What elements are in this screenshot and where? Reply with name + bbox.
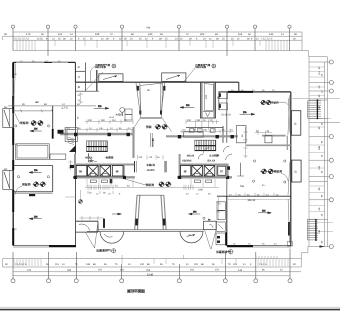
left stair direction triangle bbox=[69, 145, 76, 152]
right shaft box gray ring bbox=[217, 166, 227, 177]
node bubble B5 bbox=[177, 279, 181, 283]
node bubble 7 bbox=[253, 25, 256, 28]
small drain circles left wing bbox=[15, 125, 50, 178]
extra top band C-D ticks bbox=[55, 40, 260, 46]
svg-text:台: 台 bbox=[294, 170, 297, 174]
dark column blocks bbox=[70, 165, 74, 168]
small circle near corner box bbox=[203, 217, 205, 219]
core below-wall extension ticks bbox=[87, 179, 227, 187]
grid bubbles bottom bbox=[11, 249, 292, 283]
wall x85.4 bbox=[84, 62, 86, 91]
svg-text:预留洞: 预留洞 bbox=[22, 183, 31, 187]
top band dim text row1 bbox=[4, 27, 297, 36]
svg-text:BX.XX: BX.XX bbox=[208, 160, 216, 163]
wall x240.5 bbox=[240, 163, 242, 176]
right core machine room box bbox=[184, 132, 203, 137]
node bubble B1 bbox=[11, 279, 15, 283]
left core upper area small dims bbox=[68, 160, 72, 170]
svg-text:井: 井 bbox=[220, 170, 223, 174]
svg-text:标高规: 标高规 bbox=[105, 155, 114, 159]
svg-text:794: 794 bbox=[146, 27, 151, 30]
funnel left leg bbox=[136, 82, 140, 112]
extra dim text top band row1 bbox=[41, 33, 284, 36]
arrow left wing 2 bbox=[29, 169, 42, 173]
gray verticals cores bbox=[74, 154, 76, 178]
axis target pair F (right wing top) bbox=[261, 98, 340, 105]
gray wall right core above elevators bbox=[179, 164, 229, 166]
semicircle right bbox=[180, 231, 203, 243]
gray wall left core above elevators bbox=[74, 164, 134, 166]
node bubble 1 bbox=[11, 25, 14, 28]
node bubble R2 bbox=[329, 81, 333, 85]
right wing dim text above y196 bbox=[229, 193, 279, 196]
wire band vert 1 bbox=[308, 57, 310, 247]
door dark mark left wing bbox=[29, 194, 35, 196]
node bubble R4 bbox=[329, 135, 333, 139]
svg-text:386 38: 386 38 bbox=[248, 199, 256, 202]
axis target pair B (left wing lower) bbox=[15, 182, 45, 194]
wall bottom left bbox=[13, 244, 76, 246]
svg-text:118: 118 bbox=[238, 33, 243, 36]
tank spread diagonals bbox=[132, 118, 141, 132]
dim row y121 right bbox=[186, 120, 219, 131]
diagonal vent leader bbox=[85, 72, 103, 91]
node bubble B4 bbox=[120, 279, 124, 283]
wall top right y92 bbox=[227, 91, 291, 93]
wall y221 bbox=[76, 220, 98, 222]
arrow left wing 1 bbox=[30, 128, 42, 132]
wall left outer bbox=[12, 62, 14, 246]
wall y196 right section bbox=[217, 195, 291, 197]
right wing small box bbox=[265, 136, 272, 143]
extra dim text density top band row2 bbox=[37, 38, 259, 41]
wire right step bbox=[302, 32, 309, 57]
svg-text:预留洞: 预留洞 bbox=[271, 100, 279, 104]
extra dim text bottom band bbox=[46, 263, 283, 272]
wall x76 middle bbox=[75, 82, 77, 246]
svg-text:水箱 间: 水箱 间 bbox=[146, 163, 156, 167]
right wing tick text above wall y92 bbox=[231, 89, 275, 92]
node bubble R5 bbox=[329, 158, 333, 162]
right wall glazing diagonals bbox=[288, 95, 290, 243]
svg-text:梯: 梯 bbox=[79, 170, 82, 174]
right band extra ticks bbox=[309, 67, 325, 212]
gray wall right core top band bbox=[166, 135, 238, 137]
semicircle left bbox=[100, 231, 124, 243]
svg-text:536: 536 bbox=[240, 185, 245, 188]
right wing dim ticks above bottom wall bbox=[233, 243, 277, 246]
wall top-left bbox=[13, 61, 75, 63]
node bubble B8 bbox=[288, 279, 292, 283]
dim text above y105.9 bbox=[22, 101, 80, 106]
trapezoid top bbox=[137, 194, 164, 196]
label 屋面排水沟 left bbox=[96, 249, 115, 253]
svg-text:146: 146 bbox=[269, 33, 274, 36]
core dim texts above tick rows bbox=[67, 127, 233, 132]
svg-text:240: 240 bbox=[148, 33, 153, 36]
svg-text:132: 132 bbox=[318, 105, 321, 110]
top band dim text row2 bbox=[14, 38, 297, 41]
svg-text:170: 170 bbox=[27, 269, 32, 272]
bottom band dim text row1 bbox=[5, 263, 296, 266]
wire dim line L1 bbox=[3, 258, 302, 260]
svg-text:7.5,7.5: 7.5,7.5 bbox=[259, 263, 267, 266]
svg-text:屋顶平面图: 屋顶平面图 bbox=[127, 288, 145, 293]
extra dim texts below cores bbox=[96, 193, 211, 196]
right wall dark segment bbox=[288, 222, 290, 236]
funnel upper dark knots bbox=[137, 86, 139, 91]
elevator right shaft box R bbox=[217, 166, 227, 177]
elevator shaft L1 with X bbox=[88, 166, 99, 177]
svg-text:7.5,7.5,7.5: 7.5,7.5,7.5 bbox=[15, 263, 27, 266]
wall y91.2 bbox=[75, 90, 98, 92]
right band vertical dim texts bbox=[318, 66, 321, 234]
node bubble B3 bbox=[74, 279, 78, 283]
elevator machine room L bbox=[76, 166, 87, 177]
arrow left wing 3 bbox=[29, 215, 42, 219]
bay window upper bbox=[292, 111, 301, 136]
bay window lower bbox=[292, 160, 301, 182]
node bubble B2 bbox=[47, 279, 51, 283]
funnel right leg bbox=[161, 82, 165, 112]
arrow bottom middle left-pointing bbox=[189, 211, 201, 215]
bottom band extension ticks bbox=[14, 259, 288, 266]
room lower-left rect bbox=[13, 166, 53, 194]
shaft gray side walls bbox=[201, 83, 203, 118]
corridor top dim texts bbox=[139, 156, 161, 159]
wire band vert 2 bbox=[324, 62, 326, 247]
svg-text:加防水套管: 加防水套管 bbox=[94, 66, 107, 69]
dim ticks y218 bbox=[79, 216, 103, 221]
arrow bottom right right-pointing bbox=[258, 209, 271, 213]
corner box bbox=[204, 221, 217, 229]
axis target pair D (core middle lower) bbox=[123, 179, 170, 187]
wall step x238.8 bbox=[238, 82, 240, 92]
corner footing bottom right bbox=[287, 242, 292, 247]
wire dim line L2 bbox=[3, 266, 302, 268]
wall right outer bbox=[290, 92, 292, 246]
node bubble R6 bbox=[329, 175, 333, 179]
svg-text:198: 198 bbox=[95, 33, 100, 36]
wire left edge bbox=[2, 259, 4, 267]
wall corridor y127.6 bbox=[186, 127, 223, 129]
core label texts bbox=[85, 154, 220, 173]
right wing thin line below y196 wall bbox=[228, 199, 291, 201]
svg-text:(梯): (梯) bbox=[89, 159, 93, 163]
elevator shaft L2 with X bbox=[100, 166, 111, 177]
planter double rect bbox=[16, 144, 50, 160]
label 屋面排水沟 right bbox=[216, 250, 233, 254]
dim row y121 left bbox=[85, 120, 133, 125]
svg-text:B.B间距: B.B间距 bbox=[210, 154, 220, 158]
vertical dim x218 bottom bbox=[216, 197, 220, 220]
svg-text:258: 258 bbox=[318, 145, 321, 150]
svg-text:15.00: 15.00 bbox=[109, 116, 115, 119]
svg-text:165: 165 bbox=[318, 165, 321, 170]
svg-text:146: 146 bbox=[238, 269, 243, 272]
node bubble B6 bbox=[223, 279, 227, 283]
gray wall right core below elevators bbox=[177, 176, 232, 178]
wire border dark bbox=[0, 309, 340, 311]
wall bottom left dark segment bbox=[49, 245, 76, 247]
wire dim line y110.9 bbox=[13, 110, 53, 112]
node bubble R7 bbox=[329, 198, 333, 202]
vent circle top core bbox=[120, 108, 125, 113]
right core tick row above bbox=[180, 129, 234, 133]
wire left edge bbox=[2, 36, 4, 40]
node bubble R8 bbox=[329, 245, 333, 249]
wire band vert 3 bbox=[327, 57, 329, 247]
right wing dim row y132 bbox=[255, 130, 272, 135]
svg-text:24 36 18: 24 36 18 bbox=[221, 114, 231, 117]
svg-text:115: 115 bbox=[55, 263, 59, 266]
svg-text:预留洞: 预留洞 bbox=[20, 121, 29, 125]
node bubble 4 bbox=[120, 25, 123, 28]
svg-text:170: 170 bbox=[26, 33, 31, 36]
grid bubbles top bbox=[11, 25, 291, 56]
right band ladder hatch upper bbox=[308, 99, 332, 119]
elevator machine room R bbox=[181, 166, 191, 177]
label 排气道 left bbox=[91, 63, 116, 82]
wall y71.3 bbox=[75, 70, 85, 72]
vertical dim x245.5 bbox=[243, 127, 248, 158]
wall x227 upper bbox=[226, 92, 228, 143]
bottom band dim text row2 bbox=[27, 269, 243, 272]
svg-text:台: 台 bbox=[294, 122, 297, 126]
right band arrowhead at bottom bubble bbox=[320, 245, 325, 247]
node bubble B7 bbox=[254, 279, 258, 283]
svg-text:预留洞: 预留洞 bbox=[146, 183, 155, 187]
right core door jambs below bbox=[195, 180, 201, 183]
node bubble 3 bbox=[74, 25, 77, 28]
wall x227 bbox=[226, 196, 228, 246]
top band small extension ticks left cluster bbox=[17, 40, 287, 50]
svg-text:202: 202 bbox=[194, 263, 199, 266]
trapezoid leg dark tips bbox=[135, 219, 138, 226]
svg-text:预留洞: 预留洞 bbox=[274, 170, 283, 174]
left core tick row above bbox=[64, 128, 133, 132]
wall box x98 bbox=[97, 221, 99, 232]
left wing vertical dim marks x76 region bbox=[77, 94, 81, 119]
funnel dark tips bbox=[139, 111, 141, 115]
svg-text:7.5,7.5,7.5,7.5: 7.5,7.5,7.5,7.5 bbox=[14, 38, 30, 41]
corridor small arrow vertical bbox=[152, 138, 154, 147]
corridor vertical pipe pair bbox=[151, 133, 153, 147]
wall x227 mid segment bbox=[226, 179, 228, 197]
wire dim line y105.9 bbox=[8, 105, 96, 107]
left main stair hatch bbox=[87, 141, 108, 152]
trapezoid left leg bbox=[135, 195, 137, 229]
node bubble 6 bbox=[225, 25, 228, 28]
small circles on right wall bbox=[284, 160, 286, 162]
svg-text:水箱间: 水箱间 bbox=[116, 113, 124, 117]
wall y232 bbox=[76, 231, 98, 233]
canopy box 2 bbox=[162, 73, 186, 82]
wall bottom right dark segment bbox=[227, 245, 253, 247]
axis target pair C (core middle upper) bbox=[146, 125, 167, 130]
corridor walls between cores bbox=[135, 161, 167, 172]
svg-text:XB/XBX: XB/XBX bbox=[182, 160, 192, 163]
right wing room box x237 bbox=[237, 126, 247, 143]
svg-text:加防水套管: 加防水套管 bbox=[194, 66, 207, 69]
left core dark column blocks bbox=[58, 130, 64, 134]
svg-text:202: 202 bbox=[200, 33, 205, 36]
svg-text:1540: 1540 bbox=[147, 272, 154, 276]
svg-text:梯: 梯 bbox=[184, 170, 187, 174]
arrow bottom middle right-pointing bbox=[112, 213, 121, 215]
wire dim line D bbox=[13, 50, 302, 52]
box right of planter bbox=[50, 154, 66, 159]
V leader bottom left bbox=[85, 221, 98, 248]
dark wall seg bbox=[103, 219, 105, 228]
wire dim line C bbox=[13, 39, 302, 41]
tank panel bbox=[140, 83, 163, 117]
door arc in box bbox=[79, 224, 90, 230]
elevator right box L bbox=[112, 166, 123, 177]
svg-text:出屋面排气: 出屋面排气 bbox=[96, 249, 111, 253]
node bubble R1 bbox=[329, 60, 333, 64]
svg-text:115: 115 bbox=[58, 33, 63, 36]
node bubble R3 bbox=[329, 89, 333, 93]
wire band top bbox=[309, 56, 328, 58]
node bubble 5 bbox=[177, 25, 180, 28]
arrow mid top left-pointing bbox=[180, 104, 194, 108]
axis target pair E (right wing mid) bbox=[262, 169, 289, 181]
wire dim line A bbox=[13, 31, 302, 33]
svg-text:7.5,7.5,7.5: 7.5,7.5,7.5 bbox=[261, 38, 273, 41]
trapezoid right leg bbox=[161, 195, 163, 229]
svg-text:4B2.B: 4B2.B bbox=[187, 155, 194, 158]
wall x96.8 bbox=[96, 70, 98, 91]
right core dark column blocks bbox=[178, 135, 181, 138]
svg-text:240: 240 bbox=[140, 263, 145, 266]
wall middle bottom double line bbox=[98, 229, 204, 231]
box left M2 bbox=[3, 168, 13, 190]
wall top middle y82 bbox=[75, 81, 238, 83]
gray wall left core below elevators bbox=[73, 176, 135, 178]
left small stair hatch bbox=[68, 137, 74, 144]
svg-text:132: 132 bbox=[318, 229, 321, 234]
dark marks in boxes bbox=[217, 236, 220, 238]
counterweight boxes bbox=[90, 173, 95, 176]
gray wall window band right wing bbox=[262, 135, 286, 137]
node bubble 2 bbox=[46, 25, 49, 28]
dim row y187 bbox=[85, 185, 219, 194]
wire band h lines bbox=[309, 61, 329, 63]
axis target pair A (left wing upper) bbox=[15, 113, 43, 125]
svg-text:15.000: 15.000 bbox=[147, 169, 155, 172]
water tank small boxes bbox=[125, 109, 132, 120]
box left M1 bbox=[3, 106, 13, 128]
node bubble 8 bbox=[288, 25, 291, 28]
wire right connector bbox=[301, 247, 308, 268]
machine row small boxes bbox=[190, 129, 216, 133]
right band bubbles bbox=[329, 60, 333, 249]
top-left wall tick text bbox=[20, 60, 61, 63]
bottom middle dim ticks above band bbox=[122, 255, 277, 259]
arrow mid top right-pointing bbox=[94, 105, 109, 109]
wire border light bbox=[0, 306, 340, 308]
gray wall band left core top bbox=[60, 133, 134, 135]
svg-text:118: 118 bbox=[233, 263, 237, 266]
svg-text:344: 344 bbox=[67, 269, 72, 272]
arrow right wing upper bbox=[240, 111, 255, 115]
small boxes on wall x227 left side bbox=[216, 202, 225, 245]
left wall dark segments bbox=[12, 63, 14, 245]
V leader bottom right bbox=[205, 230, 217, 249]
right main stair hatch bbox=[195, 140, 216, 151]
door arcs core row bbox=[88, 146, 232, 162]
left core door jambs below bbox=[90, 180, 96, 183]
wall x75 upper bbox=[74, 62, 76, 82]
axis pair crosshair lines bbox=[30, 100, 274, 187]
svg-text:198: 198 bbox=[86, 263, 91, 266]
svg-text:预留: 预留 bbox=[146, 125, 152, 129]
wire dim line B bbox=[3, 35, 302, 37]
svg-text:9—: 9— bbox=[262, 184, 266, 187]
wire dim line L4 bbox=[13, 275, 290, 277]
diag line top-left corner bbox=[13, 64, 15, 108]
wall bottom right bbox=[227, 244, 291, 246]
wire dim line L3 bbox=[13, 271, 301, 273]
label 雨水斗 right bbox=[184, 63, 216, 81]
gray wall band left core vertical bbox=[132, 127, 134, 158]
wall x52.7 bbox=[52, 106, 54, 139]
wall y92 short left + vertical x218.8 bbox=[219, 91, 228, 93]
elevator shaft R2 with X bbox=[204, 166, 215, 177]
svg-text:梯: 梯 bbox=[116, 170, 119, 174]
right band ladder hatch lower bbox=[307, 219, 333, 241]
svg-text:120: 120 bbox=[205, 94, 208, 99]
window marks left wall bbox=[15, 73, 18, 231]
tank bottom line bbox=[140, 117, 162, 119]
wall x52.7 dark segment bbox=[52, 129, 54, 139]
axis circle below left core bbox=[79, 200, 83, 204]
svg-text:8 98: 8 98 bbox=[198, 188, 203, 191]
wall y62 gray overdraw segments bbox=[16, 61, 44, 63]
canopy box 1 bbox=[99, 74, 123, 82]
elevator shaft R1 with X bbox=[192, 166, 203, 177]
svg-text:上人孔: 上人孔 bbox=[61, 107, 69, 110]
